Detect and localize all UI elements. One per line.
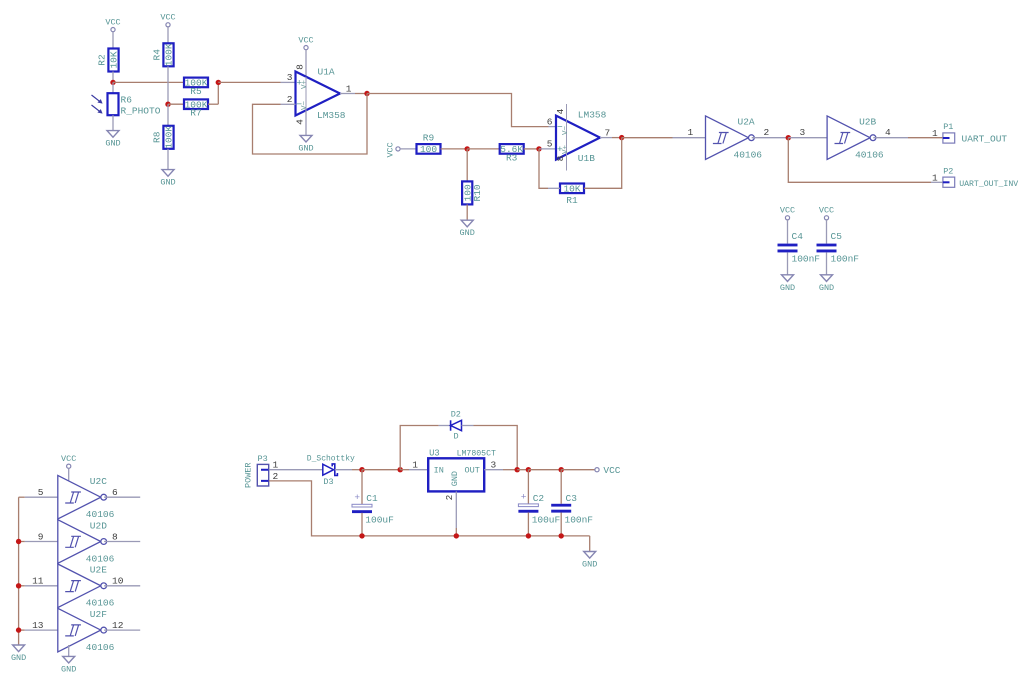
- svg-text:LM358: LM358: [578, 109, 607, 120]
- svg-text:R3: R3: [506, 152, 518, 163]
- ground (U2F): [61, 656, 76, 674]
- svg-text:V−: V−: [301, 101, 309, 111]
- svg-text:40106: 40106: [855, 150, 884, 161]
- wire VCC to C4: [787, 220, 789, 244]
- power VCC (R4): [160, 13, 175, 27]
- svg-text:VCC: VCC: [298, 35, 313, 45]
- wire node to C3 top: [560, 470, 562, 504]
- svg-text:P2: P2: [943, 166, 953, 176]
- svg-text:U1A: U1A: [318, 66, 335, 77]
- wire D2 loop right: [474, 426, 518, 470]
- svg-text:8: 8: [295, 64, 306, 70]
- svg-text:U1B: U1B: [578, 153, 595, 164]
- op-amp U1B: [556, 104, 607, 171]
- pin 11 stub U2E: [25, 585, 58, 587]
- wire node to R8: [167, 104, 169, 126]
- wire C2 to rail: [527, 512, 529, 536]
- pin 5 stub U1B: [539, 148, 556, 150]
- svg-text:40106: 40106: [734, 150, 763, 161]
- wire U3 OUT to node: [503, 469, 517, 471]
- svg-text:10K: 10K: [563, 184, 580, 195]
- svg-text:C5: C5: [831, 231, 843, 242]
- svg-text:GND: GND: [298, 143, 313, 153]
- resistor R8: [152, 126, 175, 149]
- connector P1: [943, 122, 955, 143]
- svg-text:U2E: U2E: [90, 565, 107, 576]
- wire node to U3 IN: [400, 469, 409, 471]
- svg-text:UART_OUT: UART_OUT: [962, 134, 1008, 145]
- wire VCC to R9: [400, 148, 416, 150]
- wire to P2: [788, 138, 931, 183]
- junction U2A output: [786, 135, 791, 140]
- svg-text:R4: R4: [152, 49, 163, 61]
- wire R1 to U1B output: [584, 138, 622, 189]
- svg-text:R_PHOTO: R_PHOTO: [121, 105, 161, 116]
- svg-text:40106: 40106: [86, 598, 115, 609]
- regulator U3 LM7805CT: [428, 448, 496, 491]
- svg-text:VCC: VCC: [160, 13, 175, 23]
- wire VCC to R2: [112, 32, 114, 49]
- capacitor C1: [352, 492, 372, 513]
- wire R3 to pin5 node: [524, 148, 539, 150]
- junction input rail y=585.8: [16, 583, 21, 588]
- wire rail to U2C input: [19, 496, 25, 498]
- svg-text:9: 9: [38, 531, 44, 542]
- diode D2: [451, 409, 462, 441]
- power VCC (R9): [386, 142, 401, 157]
- svg-text:2: 2: [444, 494, 455, 500]
- wire rail to U2E input: [19, 585, 25, 587]
- svg-text:D: D: [453, 432, 458, 442]
- svg-text:4: 4: [295, 119, 306, 125]
- pin 2 stub U2A: [752, 137, 789, 139]
- junction U1A output: [364, 91, 369, 96]
- wire R4 to node: [167, 66, 169, 104]
- svg-text:R7: R7: [190, 108, 201, 119]
- junction OUT/D2 node: [515, 467, 520, 472]
- wire node to U1A pin3: [218, 81, 280, 83]
- svg-text:3: 3: [287, 72, 293, 83]
- svg-text:C1: C1: [366, 493, 378, 504]
- svg-text:1: 1: [273, 460, 279, 471]
- junction rail C2: [526, 533, 531, 538]
- resistor R1: [560, 184, 584, 206]
- inverter U2B: [827, 116, 884, 161]
- svg-text:VCC: VCC: [603, 465, 620, 476]
- svg-text:6: 6: [112, 487, 118, 498]
- svg-text:2: 2: [287, 94, 293, 105]
- svg-text:13: 13: [32, 620, 44, 631]
- ground (R6): [105, 131, 120, 149]
- wire U1B out to junction: [612, 137, 622, 139]
- junction U1B output: [619, 135, 624, 140]
- pin 4 stub U2B: [873, 137, 908, 139]
- svg-text:C2: C2: [533, 493, 545, 504]
- pin stub D2 cathode side: [462, 425, 474, 427]
- ground (C4): [780, 275, 795, 293]
- svg-text:100: 100: [420, 144, 437, 155]
- wire C3 node to VCC: [561, 469, 595, 471]
- svg-text:R5: R5: [190, 86, 202, 97]
- wire D2 loop left: [400, 426, 438, 470]
- svg-text:POWER: POWER: [244, 462, 254, 488]
- resistor R10: [462, 181, 483, 204]
- wire OUT node to C2: [517, 469, 528, 471]
- wire C2 node to C3: [528, 469, 561, 471]
- pin 1 stub U3: [409, 469, 428, 471]
- power VCC (output): [595, 468, 599, 472]
- svg-text:V−: V−: [562, 126, 570, 136]
- wire rail to U2F input: [19, 629, 25, 631]
- svg-text:8: 8: [112, 531, 118, 542]
- svg-text:D3: D3: [323, 477, 333, 487]
- capacitor C4: [778, 244, 798, 253]
- svg-text:GND: GND: [11, 653, 26, 663]
- wire C3 to rail: [560, 513, 562, 536]
- svg-text:U2D: U2D: [90, 520, 107, 531]
- capacitor C5: [817, 244, 837, 253]
- junction rail U3 GND: [454, 533, 459, 538]
- wire photo node to R5: [113, 81, 184, 83]
- wire C4 to GND: [787, 252, 789, 274]
- svg-text:6: 6: [547, 116, 553, 127]
- wire VCC to R4: [167, 27, 169, 43]
- svg-text:P3: P3: [258, 454, 268, 464]
- junction input rail y=630.1: [16, 627, 21, 632]
- wire R6 to GND: [112, 115, 114, 130]
- wire U1A feedback loop: [253, 94, 368, 155]
- wire R9 to node: [441, 148, 468, 150]
- svg-text:1: 1: [346, 83, 352, 94]
- resistor R9: [417, 133, 441, 156]
- svg-text:VCC: VCC: [386, 142, 396, 157]
- svg-text:R1: R1: [566, 195, 578, 206]
- junction divider node: [165, 102, 170, 107]
- svg-text:40106: 40106: [86, 642, 115, 653]
- svg-text:C4: C4: [792, 231, 804, 242]
- svg-text:100uF: 100uF: [365, 514, 394, 525]
- wire divider to R7: [168, 103, 184, 105]
- svg-text:LM7805CT: LM7805CT: [457, 449, 496, 458]
- pin 3 stub U2B: [788, 137, 827, 139]
- pin 2 stub U1A: [281, 103, 296, 105]
- svg-text:GND: GND: [61, 664, 76, 674]
- wire C1 node to D2 node: [362, 469, 400, 471]
- wire rail to U2D input: [19, 541, 25, 543]
- svg-text:V+: V+: [562, 145, 570, 155]
- svg-text:VCC: VCC: [105, 17, 120, 27]
- inverter U2A: [706, 116, 763, 161]
- wire R10 to GND: [466, 204, 468, 220]
- wire R6 pin top: [112, 82, 114, 93]
- svg-text:100nF: 100nF: [792, 254, 821, 265]
- svg-text:V+: V+: [301, 80, 309, 90]
- svg-text:R6: R6: [121, 94, 133, 105]
- svg-text:VCC: VCC: [819, 206, 834, 216]
- svg-text:GND: GND: [450, 471, 460, 486]
- inverter U2D: [58, 520, 115, 565]
- svg-text:12: 12: [112, 620, 124, 631]
- svg-text:P1: P1: [943, 122, 953, 132]
- svg-text:10: 10: [112, 576, 124, 587]
- connector P3: [244, 454, 269, 488]
- op-amp U1A: [296, 66, 346, 121]
- wire R1 left pin: [548, 187, 560, 189]
- svg-text:UART_OUT_INV: UART_OUT_INV: [959, 180, 1018, 189]
- svg-text:10K: 10K: [109, 51, 120, 68]
- svg-text:D_Schottky: D_Schottky: [307, 455, 355, 464]
- pin 14 line U2C: [68, 468, 70, 480]
- junction R5 output node: [216, 80, 221, 85]
- wire R2 to node: [112, 72, 114, 83]
- svg-text:U2A: U2A: [738, 117, 755, 128]
- wire P3.2 down: [269, 481, 590, 536]
- svg-text:D2: D2: [451, 409, 461, 419]
- pin 2 stub U3: [455, 491, 457, 528]
- svg-text:11: 11: [32, 576, 44, 587]
- ground (R8): [160, 170, 175, 188]
- svg-text:100K: 100K: [164, 43, 175, 66]
- svg-text:C3: C3: [566, 493, 578, 504]
- pin stub D2 anode side: [439, 425, 451, 427]
- ground (input rail): [11, 645, 26, 663]
- wire to C1 node: [352, 469, 362, 471]
- svg-text:U2F: U2F: [90, 609, 107, 620]
- svg-text:100uF: 100uF: [532, 514, 561, 525]
- wire node to R10: [466, 149, 468, 182]
- resistor R2: [97, 49, 120, 72]
- wire U2B out to P1: [908, 137, 943, 139]
- svg-text:7: 7: [605, 127, 611, 138]
- wire node to R3: [467, 148, 500, 150]
- junction rail C3: [559, 533, 564, 538]
- svg-text:8: 8: [555, 155, 566, 161]
- pin 3 stub U1A: [281, 81, 296, 83]
- svg-text:40106: 40106: [86, 553, 115, 564]
- pin 9 stub U2D: [25, 541, 58, 543]
- svg-text:1: 1: [932, 128, 938, 139]
- svg-text:100nF: 100nF: [565, 514, 594, 525]
- junction node photo: [110, 80, 115, 85]
- wire pin5 node to R1: [539, 149, 548, 188]
- svg-text:U3: U3: [429, 448, 440, 458]
- pin 7 stub U1B: [600, 137, 612, 139]
- svg-text:GND: GND: [160, 178, 175, 188]
- diode D3 (Schottky): [307, 455, 355, 487]
- pin 3 stub U3: [484, 469, 503, 471]
- pin 8 line U1A: [305, 50, 307, 110]
- resistor R7: [184, 99, 208, 118]
- inverter U2C: [58, 475, 115, 520]
- inverter U2F: [58, 608, 115, 653]
- wire input rail: [18, 497, 20, 645]
- wire bend up to node: [217, 82, 219, 104]
- capacitor C3: [551, 504, 571, 513]
- ground (power rail): [582, 552, 597, 570]
- svg-text:1: 1: [932, 172, 938, 183]
- pin 13 stub U2F: [25, 629, 58, 631]
- pin stub P2: [931, 181, 943, 183]
- junction C3 node: [559, 467, 564, 472]
- power VCC (U1A): [298, 35, 313, 49]
- svg-text:R9: R9: [423, 133, 435, 144]
- svg-text:3: 3: [491, 459, 497, 470]
- svg-text:LM358: LM358: [317, 110, 346, 121]
- inverter U2E: [58, 564, 115, 609]
- svg-text:4: 4: [555, 108, 566, 114]
- pin 6 stub U1B: [549, 126, 557, 128]
- resistor R4: [152, 43, 175, 66]
- svg-text:1: 1: [688, 127, 694, 138]
- pin 7 line U2F: [68, 645, 70, 656]
- junction C1 node: [359, 467, 364, 472]
- svg-text:100K: 100K: [164, 126, 175, 149]
- photoresistor R6: [92, 93, 161, 116]
- svg-text:GND: GND: [780, 283, 795, 293]
- junction U1B pin5 node: [536, 146, 541, 151]
- wire U1A out to junction: [355, 93, 367, 95]
- junction D2/IN node: [398, 467, 403, 472]
- svg-text:5: 5: [38, 487, 44, 498]
- pin 1 stub U2A: [673, 137, 706, 139]
- svg-text:GND: GND: [819, 283, 834, 293]
- svg-text:40106: 40106: [86, 509, 115, 520]
- ground (U1A): [298, 135, 313, 153]
- capacitor C2: [518, 492, 538, 513]
- pin 8 stub U2D: [104, 541, 140, 543]
- pin 4 line U1A: [305, 110, 307, 135]
- wire rail to GND: [589, 536, 591, 551]
- svg-text:5: 5: [547, 139, 553, 150]
- resistor R5: [184, 78, 208, 97]
- svg-text:GND: GND: [105, 139, 120, 149]
- power VCC (C5): [819, 206, 834, 220]
- pin 5 stub U2C: [25, 496, 58, 498]
- svg-text:U2B: U2B: [859, 117, 876, 128]
- junction rail C1: [359, 533, 364, 538]
- svg-text:R10: R10: [472, 184, 483, 201]
- wire R7 to bend: [208, 103, 218, 105]
- pin 6 stub U2C: [104, 496, 140, 498]
- svg-text:GND: GND: [460, 228, 475, 238]
- power VCC (C4): [780, 206, 795, 220]
- junction input rail y=541.5: [16, 539, 21, 544]
- pin 1 stub U1A: [340, 93, 355, 95]
- wire node to C1 top: [361, 470, 363, 505]
- wire C1 to rail: [361, 513, 363, 536]
- svg-text:+: +: [354, 492, 360, 503]
- svg-text:2: 2: [764, 127, 770, 138]
- ground (C5): [819, 275, 834, 293]
- svg-text:VCC: VCC: [61, 454, 76, 464]
- wire C5 to GND: [826, 252, 828, 274]
- wire node to C2 top: [527, 470, 529, 504]
- pin 12 stub U2F: [104, 629, 140, 631]
- junction R9/R10 node: [465, 146, 470, 151]
- svg-text:OUT: OUT: [465, 466, 480, 476]
- wire U1A out to U1B pin6: [367, 94, 549, 127]
- pin 10 stub U2E: [104, 585, 140, 587]
- wire U3 GND to rail: [455, 528, 457, 536]
- wire U1B out to U2A: [622, 137, 673, 139]
- power VCC (R2): [105, 17, 120, 31]
- svg-text:IN: IN: [434, 466, 444, 476]
- svg-text:VCC: VCC: [780, 206, 795, 216]
- wire VCC to C5: [826, 220, 828, 244]
- svg-text:U2C: U2C: [90, 476, 107, 487]
- connector P2: [943, 166, 955, 187]
- svg-text:R8: R8: [152, 131, 163, 143]
- wire P3.1 to D3: [269, 469, 323, 471]
- svg-text:100nF: 100nF: [831, 254, 860, 265]
- svg-text:R2: R2: [97, 54, 108, 66]
- svg-text:3: 3: [800, 127, 806, 138]
- junction C2 node: [526, 467, 531, 472]
- svg-text:+: +: [521, 492, 527, 503]
- wire D3 to C1 node: [335, 469, 352, 471]
- ground (R10): [460, 220, 475, 238]
- power VCC (U2C): [61, 454, 76, 468]
- resistor R3: [500, 144, 524, 163]
- svg-text:GND: GND: [582, 560, 597, 570]
- wire R8 to GND: [167, 149, 169, 170]
- svg-text:4: 4: [885, 127, 891, 138]
- svg-text:1: 1: [412, 460, 418, 471]
